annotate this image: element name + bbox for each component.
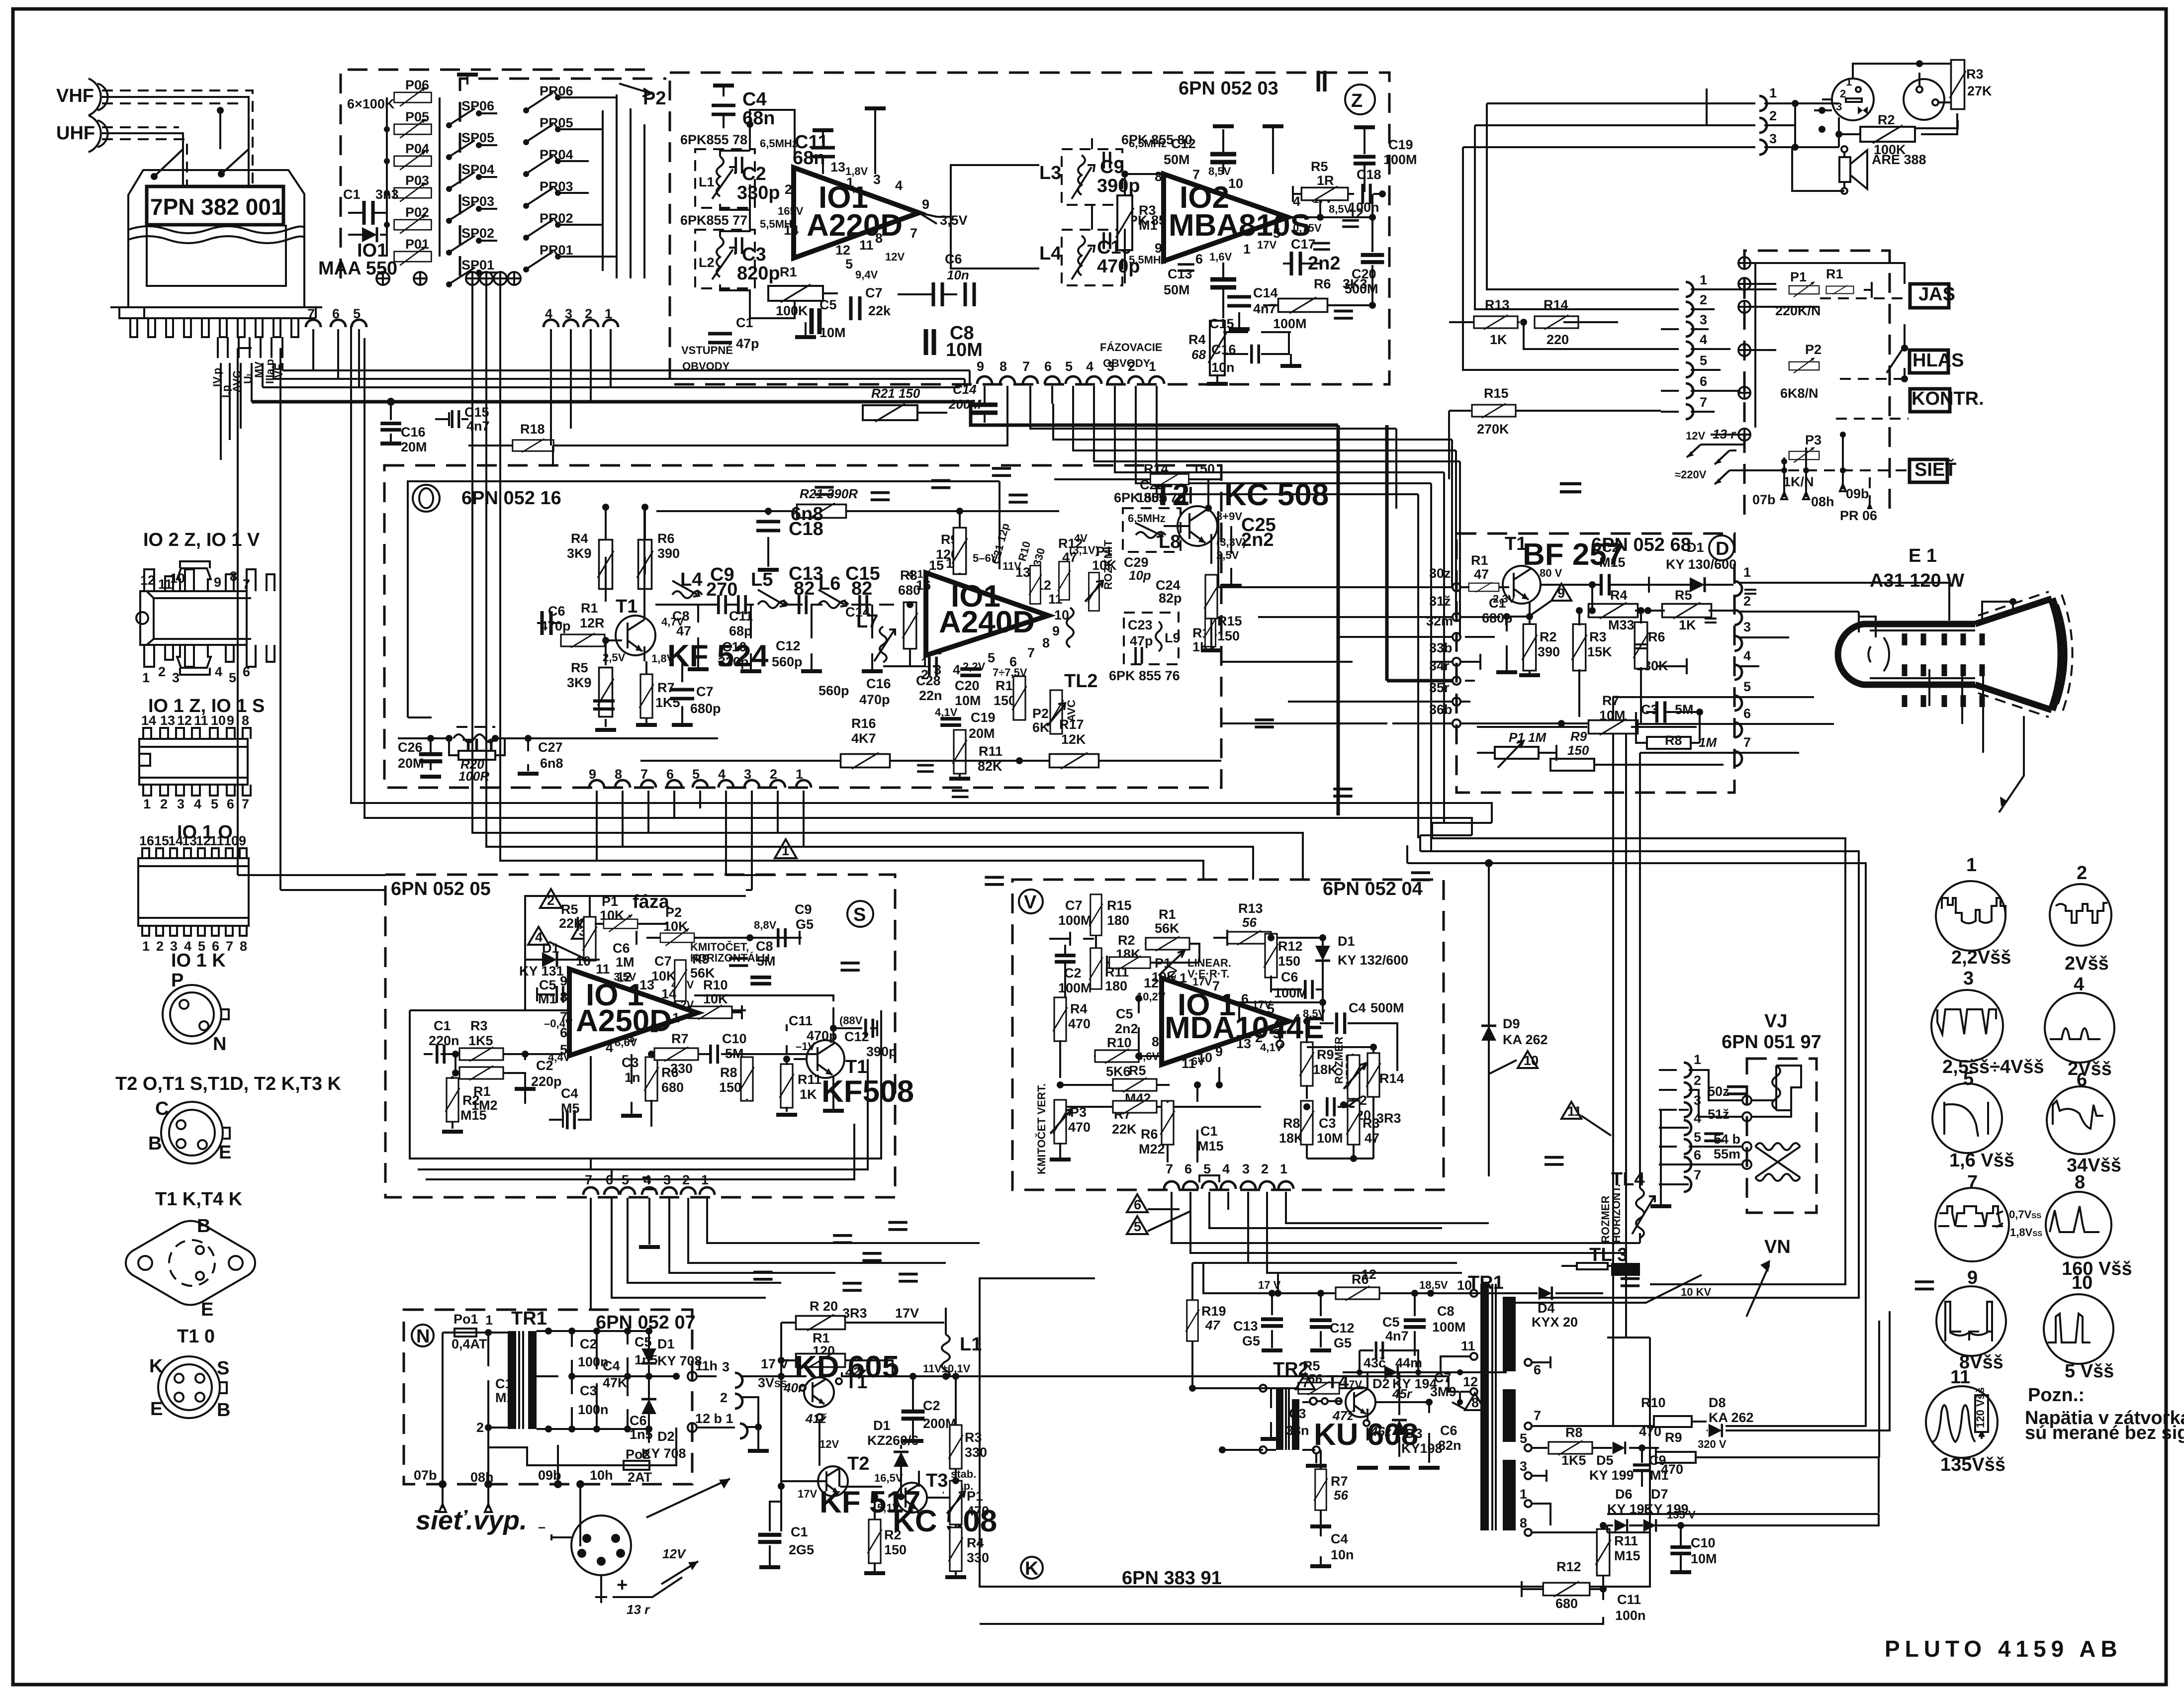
svg-text:330: 330 [670, 1061, 693, 1076]
tuner label plate [147, 186, 283, 225]
svg-text:7: 7 [1212, 979, 1220, 993]
svg-text:100M: 100M [1273, 316, 1307, 331]
node N circle [412, 1325, 434, 1346]
svg-text:9: 9 [1052, 624, 1060, 638]
svg-text:68: 68 [1191, 347, 1206, 362]
svg-text:56K: 56K [1155, 921, 1180, 936]
channel selector dashed box [341, 70, 651, 278]
wire 135V line [1607, 1525, 1650, 1532]
T1 emitter ground [832, 1076, 834, 1109]
svg-text:C7: C7 [696, 684, 714, 699]
capacitor C5 M1 [537, 978, 575, 1006]
capacitor C7 3M9 [1430, 1087, 1746, 1405]
VJ crossed deflection coils [1755, 1143, 1800, 1181]
svg-text:330p: 330p [737, 182, 780, 203]
capacitor C14 200M [948, 382, 998, 423]
svg-text:Z: Z [1351, 90, 1363, 111]
resistor R7 22K [1057, 1100, 1261, 1137]
svg-text:6PN 051 97: 6PN 051 97 [1722, 1032, 1821, 1053]
svg-text:320 V: 320 V [1698, 1438, 1727, 1450]
resistor R6 180K [1634, 607, 1668, 725]
svg-text:5: 5 [1134, 1219, 1141, 1234]
capacitor C5 2n2 [1115, 789, 1353, 1057]
svg-text:12R: 12R [580, 616, 605, 630]
capacitor C12 50M [1164, 126, 1236, 174]
pin 4 [1605, 648, 1759, 680]
tuner wavy lines [128, 226, 304, 233]
resistor R18 1K2 [1192, 609, 1217, 655]
tuner pin comb [110, 307, 322, 337]
svg-text:6K8/N: 6K8/N [1780, 386, 1819, 401]
control box KONTR [1910, 388, 1984, 412]
svg-text:C2: C2 [1064, 966, 1082, 981]
wire secondary rails [558, 1331, 676, 1429]
filter 6PK85578 [680, 132, 798, 218]
svg-text:1M: 1M [1699, 735, 1717, 750]
resistor R8 680 [898, 568, 920, 666]
resistor R7 56 [1310, 1450, 1348, 1526]
resistor R1 47 [1469, 553, 1509, 592]
svg-text:6: 6 [243, 664, 250, 679]
capacitor C16 20M [380, 402, 427, 454]
svg-text:8: 8 [230, 569, 237, 584]
resistor R18 15K [468, 422, 970, 469]
K module outline 6PN 383 91 [980, 1278, 1650, 1587]
svg-text:C8: C8 [756, 939, 773, 954]
wire bus tuner outputs [221, 363, 282, 460]
svg-text:VF: VF [273, 364, 285, 378]
svg-text:KYX 20: KYX 20 [1532, 1315, 1578, 1330]
svg-text:6PN 052 04: 6PN 052 04 [1323, 879, 1423, 899]
svg-text:SIEŤ: SIEŤ [1914, 458, 1956, 480]
resistor R1 12R [561, 601, 622, 647]
svg-text:7: 7 [1302, 1375, 1309, 1390]
connector 30z [1392, 566, 1470, 591]
svg-text:2: 2 [160, 797, 168, 811]
svg-text:7: 7 [1694, 1167, 1701, 1182]
capacitor C15 100M [1209, 71, 1325, 375]
svg-text:ROZKMIT: ROZKMIT [1102, 539, 1114, 590]
svg-text:4: 4 [1293, 1011, 1300, 1026]
svg-text:R12: R12 [1556, 1559, 1581, 1574]
capacitor C12 560p [772, 480, 950, 671]
svg-text:C5: C5 [819, 297, 837, 312]
svg-text:16,5V: 16,5V [874, 1472, 903, 1484]
svg-text:IO 1 K: IO 1 K [171, 950, 226, 971]
wire O pins drop [597, 803, 804, 890]
svg-text:R9: R9 [1665, 1430, 1682, 1445]
svg-text:3,5V: 3,5V [940, 213, 968, 228]
svg-text:9: 9 [227, 713, 234, 728]
svg-text:5: 5 [845, 257, 853, 271]
pin 09b [538, 1445, 562, 1488]
capacitor C6 470p [537, 604, 571, 635]
svg-text:10K: 10K [703, 991, 728, 1006]
svg-text:R10: R10 [1107, 1035, 1132, 1050]
svg-text:2,5V: 2,5V [1216, 549, 1239, 561]
svg-text:C1: C1 [343, 187, 361, 202]
label 13r [613, 1577, 682, 1617]
switches PR06..PR01 labels [523, 84, 573, 113]
diode IO1 MAA550 [318, 227, 397, 279]
svg-text:390p: 390p [866, 1044, 897, 1059]
bottom connector 9..1 of Z box [977, 359, 1164, 404]
pin 2 [1705, 594, 1859, 625]
svg-text:80 V: 80 V [1540, 567, 1562, 579]
capacitor C4 M5 [549, 1056, 591, 1129]
svg-text:07b: 07b [1752, 492, 1776, 507]
capacitor C6 82n [1375, 1134, 1724, 1468]
diode D6 KY198 [1607, 1487, 1652, 1532]
svg-text:07b: 07b [414, 1468, 437, 1483]
resistor R2 390 [1519, 603, 1560, 675]
svg-text:1: 1 [485, 1313, 493, 1328]
O module dashed box 6PN 052 16 [384, 465, 1221, 788]
svg-text:S: S [853, 904, 866, 925]
svg-text:B: B [197, 1216, 210, 1237]
svg-text:10: 10 [2072, 1272, 2093, 1293]
svg-text:R14: R14 [1544, 297, 1568, 312]
svg-text:M15: M15 [1614, 1548, 1640, 1563]
svg-text:390: 390 [657, 546, 680, 561]
svg-text:120 Všš: 120 Všš [1974, 1387, 1987, 1428]
svg-text:L9: L9 [1165, 630, 1181, 645]
resistor R11 180 [1090, 944, 1129, 993]
resistor R3 47 [1307, 1101, 1380, 1162]
warning triangle 11 [1561, 1102, 1611, 1136]
svg-text:5: 5 [1065, 359, 1073, 374]
DIN socket circle 2 [1904, 79, 1957, 120]
op-amp IO2 MBA810S [1164, 174, 1288, 261]
svg-text:500M: 500M [1370, 1000, 1404, 1015]
svg-text:7: 7 [1967, 1172, 1978, 1193]
capacitor C14 4n7 [1227, 285, 1278, 329]
svg-text:L1: L1 [699, 175, 715, 189]
control box SIET [1910, 458, 1956, 482]
connector 31z [1392, 594, 1500, 621]
resistor R12 47 [1058, 536, 1083, 600]
svg-text:C14: C14 [953, 382, 977, 397]
svg-text:Po1: Po1 [454, 1312, 478, 1327]
svg-text:T1 0: T1 0 [177, 1326, 215, 1347]
svg-text:KONTR.: KONTR. [1911, 388, 1984, 409]
Z module dashed box 6PN 052 03 [670, 73, 1389, 384]
switch SP04 [446, 162, 494, 192]
svg-text:R1: R1 [581, 601, 598, 616]
pot P2 220 [1344, 1055, 1371, 1129]
svg-text:3: 3 [934, 662, 941, 677]
capacitor C11 68n [793, 130, 835, 174]
capacitor C9 M1 [1633, 1448, 1669, 1487]
svg-text:R3: R3 [470, 1018, 488, 1033]
switch on P2 [1887, 324, 1905, 378]
svg-text:C11: C11 [729, 609, 753, 624]
svg-text:1: 1 [1966, 855, 1977, 876]
svg-text:47: 47 [1365, 1131, 1379, 1146]
svg-text:1: 1 [1694, 1052, 1701, 1067]
coil TL2 right of A240D [1064, 608, 1098, 692]
svg-text:K: K [1025, 1558, 1039, 1579]
svg-text:8: 8 [240, 939, 247, 954]
svg-text:G5: G5 [1334, 1336, 1352, 1350]
svg-text:680: 680 [1555, 1596, 1578, 1611]
pin 3 [1635, 620, 1789, 651]
resistor R2 150 [864, 1493, 907, 1573]
svg-text:C4: C4 [742, 89, 767, 110]
svg-text:2: 2 [682, 1172, 690, 1187]
svg-text:9: 9 [1557, 586, 1565, 601]
svg-text:6: 6 [1241, 991, 1249, 1006]
pin 5 [1660, 679, 1814, 711]
diode D1 KZ260/6 [867, 1418, 919, 1500]
waveform circle 8 [2046, 1172, 2132, 1279]
svg-text:6: 6 [1195, 252, 1203, 267]
svg-text:7: 7 [226, 939, 233, 954]
svg-text:10M: 10M [819, 325, 846, 340]
svg-text:4: 4 [895, 178, 903, 193]
svg-text:D3: D3 [1405, 1426, 1423, 1441]
svg-text:R4: R4 [1610, 588, 1628, 603]
svg-text:1: 1 [1280, 1161, 1287, 1176]
potentiometer P06 [394, 78, 432, 106]
antenna UHF [56, 115, 108, 152]
pin PR06 [1840, 477, 1877, 523]
package IO2Z IO1V body [136, 561, 274, 685]
svg-text:4n7: 4n7 [1385, 1329, 1409, 1343]
svg-text:C20: C20 [955, 678, 980, 693]
resistor R5 22K [559, 896, 597, 961]
svg-text:4: 4 [1743, 648, 1751, 663]
svg-text:IV.p: IV.p [211, 368, 223, 387]
svg-text:D6: D6 [1615, 1487, 1633, 1502]
capacitor C11 470p [787, 877, 1004, 1054]
svg-text:3: 3 [1769, 131, 1777, 146]
VJ dashed box [1747, 1059, 1817, 1213]
wire Z bottom to O top risers [553, 370, 970, 465]
svg-text:4K7: 4K7 [851, 731, 876, 746]
svg-text:R18: R18 [520, 422, 545, 437]
package IO1Z IO1S body [139, 713, 251, 811]
connector arcs 1-7 right column [1661, 272, 1740, 419]
wire C1 to ladder [386, 234, 388, 236]
svg-text:3: 3 [177, 797, 184, 811]
svg-text:D5: D5 [1596, 1453, 1614, 1468]
svg-text:T1: T1 [845, 1372, 867, 1393]
svg-text:8+9V: 8+9V [1216, 510, 1242, 523]
capacitor C8 5M [750, 939, 775, 983]
capacitor C18 6n8 [756, 504, 823, 570]
svg-text:C13: C13 [1168, 267, 1192, 281]
svg-text:E: E [219, 1142, 231, 1163]
svg-text:R15: R15 [1217, 614, 1242, 628]
wire C16 junction [387, 398, 395, 406]
svg-text:C6: C6 [945, 252, 962, 267]
svg-text:5: 5 [622, 1172, 629, 1187]
svg-text:T3: T3 [926, 1470, 948, 1491]
svg-text:10: 10 [211, 713, 226, 728]
svg-text:D8: D8 [1709, 1395, 1726, 1410]
svg-text:6PK855 78: 6PK855 78 [680, 132, 747, 147]
svg-text:44m: 44m [1395, 1355, 1422, 1370]
svg-text:R19: R19 [1201, 1304, 1226, 1319]
C13 82 [789, 563, 823, 599]
resistor R12 680 [1522, 1559, 1603, 1611]
capacitor C25 2n2 [1221, 311, 1353, 586]
capacitor C3 5M [1641, 701, 1703, 722]
resistor R19 47 [1186, 1263, 1226, 1390]
switch SP03 [446, 194, 494, 224]
label 10KV [1516, 1275, 1711, 1303]
svg-text:2Všš: 2Všš [2068, 1059, 2112, 1079]
svg-text:150: 150 [884, 1542, 907, 1557]
wire chain [655, 604, 894, 606]
svg-text:09b: 09b [1846, 486, 1869, 501]
svg-text:6: 6 [227, 797, 234, 811]
svg-text:R16: R16 [851, 716, 876, 731]
svg-text:4: 4 [953, 662, 960, 677]
svg-text:MBA810S: MBA810S [1169, 208, 1311, 243]
capacitor C29 10p [1124, 243, 1330, 583]
svg-text:R9: R9 [1570, 729, 1587, 744]
svg-text:KA 262: KA 262 [1503, 1032, 1548, 1047]
warning triangle 4 [528, 927, 585, 959]
resistor R14 220 [1535, 297, 1578, 347]
capacitor C1 2G5 [758, 1486, 814, 1567]
pot P1 10K rozkmit [1069, 532, 1117, 611]
svg-text:10n: 10n [1211, 360, 1235, 375]
warning triangle 8 [1452, 1393, 1485, 1410]
capacitor C17 2n2 [1283, 237, 1340, 275]
pin 7 [1645, 735, 1799, 766]
svg-text:8: 8 [1155, 169, 1162, 184]
resistor R21 390R [656, 486, 1059, 519]
svg-text:D1: D1 [1338, 934, 1355, 949]
resistor R20 3R3 [781, 1299, 944, 1331]
svg-text:4: 4 [215, 664, 222, 679]
control box JAS [1910, 284, 1955, 308]
capacitor C3 100n [568, 1283, 862, 1432]
svg-text:15K: 15K [1587, 644, 1612, 659]
svg-text:R5: R5 [1129, 1063, 1146, 1078]
svg-text:C2: C2 [742, 164, 766, 184]
svg-text:1: 1 [846, 175, 854, 190]
svg-text:VSTUPNÉ: VSTUPNÉ [681, 344, 733, 357]
svg-text:4: 4 [1086, 359, 1093, 374]
svg-text:100K: 100K [776, 303, 808, 318]
filter L9 C23 [1124, 613, 1181, 664]
resistor R4 M33 [1589, 585, 1648, 632]
svg-text:2AT: 2AT [628, 1470, 652, 1485]
potentiometer P05 [394, 109, 432, 138]
resistor R3 27K [1950, 60, 1992, 109]
VJ line coil top [1751, 1066, 1801, 1117]
svg-text:6: 6 [1184, 1161, 1192, 1176]
svg-text:M15: M15 [460, 1108, 487, 1123]
svg-text:3K9: 3K9 [567, 546, 592, 561]
svg-text:C19: C19 [1388, 137, 1413, 152]
controls dashed box [1744, 251, 1890, 515]
capacitor C1 47p [708, 315, 759, 351]
svg-text:13: 13 [160, 713, 175, 728]
svg-text:C4: C4 [561, 1086, 578, 1101]
svg-text:7PN 382 001: 7PN 382 001 [150, 194, 284, 220]
capacitor C22 150p [1137, 477, 1190, 505]
svg-text:8,5V: 8,5V [1329, 203, 1352, 215]
svg-text:TR1: TR1 [511, 1308, 547, 1329]
svg-text:C2: C2 [580, 1337, 597, 1351]
svg-text:17 V: 17 V [761, 1356, 789, 1371]
wire O right to D risers [1221, 662, 1387, 723]
wire UHF feed [102, 133, 183, 194]
svg-text:KMITOČET VERT.: KMITOČET VERT. [1035, 1083, 1048, 1174]
svg-text:6: 6 [1134, 1197, 1141, 1212]
svg-text:17V: 17V [1192, 976, 1212, 988]
connector 32m [1392, 614, 1495, 641]
svg-text:C16: C16 [401, 425, 426, 440]
svg-text:V: V [1024, 892, 1037, 913]
switch arrow [646, 1479, 730, 1517]
svg-text:1: 1 [1149, 359, 1156, 374]
capacitor C21 12p [989, 265, 1194, 566]
svg-text:R6: R6 [1648, 629, 1665, 644]
svg-text:C17: C17 [1291, 237, 1316, 252]
svg-text:C7: C7 [1065, 898, 1083, 913]
svg-text:R11: R11 [979, 744, 1002, 759]
resistor R5 1K [1644, 588, 1734, 632]
capacitor C27 6n8 [518, 701, 615, 774]
svg-text:2: 2 [476, 1420, 484, 1435]
waveform circle 3 [1931, 968, 2044, 1077]
svg-text:14: 14 [168, 833, 183, 848]
svg-text:12K: 12K [1061, 732, 1086, 747]
svg-text:3: 3 [1520, 1459, 1527, 1474]
antenna VHF [56, 79, 108, 115]
package T10 TO-72 [149, 1356, 230, 1421]
svg-text:150: 150 [1278, 954, 1300, 969]
svg-text:R17: R17 [1059, 717, 1084, 732]
resistor R4 470 [1053, 997, 1091, 1078]
capacitor C13 G5 [1233, 1290, 1283, 1350]
svg-text:5K6: 5K6 [1106, 1064, 1131, 1079]
resistor R5 56 [1189, 1358, 1364, 1395]
capacitor C24 82p [1156, 220, 1359, 606]
svg-text:R1: R1 [1159, 907, 1176, 922]
svg-text:R6: R6 [1141, 1127, 1158, 1142]
svg-text:470: 470 [967, 1504, 989, 1518]
svg-text:13: 13 [1236, 1036, 1251, 1051]
svg-text:46z: 46z [1370, 1424, 1391, 1439]
svg-text:100M: 100M [1432, 1320, 1466, 1335]
svg-text:6PN 052 07: 6PN 052 07 [596, 1312, 696, 1333]
svg-text:C2: C2 [923, 1398, 940, 1413]
svg-text:10: 10 [576, 954, 591, 969]
12V switch [1686, 427, 1743, 457]
warning triangle 5 [1127, 1211, 1190, 1234]
svg-text:R2: R2 [884, 1527, 902, 1542]
capacitor C2 100n [568, 1236, 852, 1376]
svg-text:34r: 34r [1429, 658, 1450, 673]
resistor R1 10K [1823, 267, 1872, 298]
svg-text:D: D [1716, 538, 1729, 559]
svg-text:FÁZOVACIE: FÁZOVACIE [1100, 341, 1162, 354]
resistor R1 100K [768, 265, 838, 318]
svg-text:3n3: 3n3 [375, 187, 399, 202]
svg-text:35r: 35r [1429, 680, 1450, 695]
svg-text:C26: C26 [398, 740, 423, 755]
svg-text:C11: C11 [1617, 1592, 1641, 1607]
svg-text:2: 2 [720, 1390, 728, 1405]
svg-text:9: 9 [239, 833, 246, 848]
